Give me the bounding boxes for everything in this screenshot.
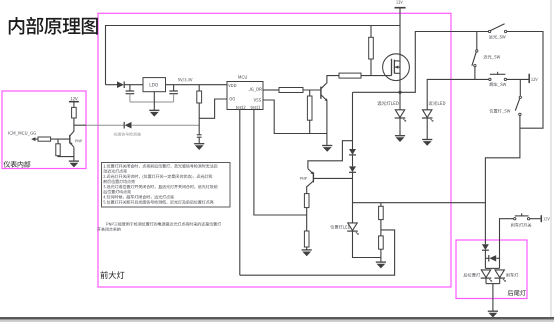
resistor R_inst2 (base series) <box>38 137 51 141</box>
capacitor C3 (sense filter) <box>197 135 202 137</box>
notes line 6 <box>103 190 107 194</box>
diode D1 (chain) <box>349 149 356 155</box>
label 位置灯_SW <box>489 109 493 113</box>
transistor Q1 collector <box>321 76 339 89</box>
wire drain node to high-beam switch rail <box>400 32 488 93</box>
wire brake switch to rear rail <box>500 219 514 269</box>
capacitor C1 input <box>126 85 135 102</box>
wire R7 to ground <box>306 247 308 250</box>
wire between D1 D2 <box>352 155 354 166</box>
wire R6 to R7 node <box>306 208 308 231</box>
instrument cluster boundary box (pink) <box>2 91 86 169</box>
ground (high beam LED) <box>395 136 405 142</box>
wire position LED bottom link <box>353 231 381 257</box>
wire LED to ground <box>399 118 401 135</box>
wire D3 to rear LED rail <box>484 250 486 268</box>
capacitor C2 output <box>169 85 178 102</box>
wire D2 to position LED node <box>352 173 354 223</box>
resistor R_inst3 (base-emitter shunt) <box>56 144 60 156</box>
transistor Q2 P-MOSFET body circle <box>383 54 410 81</box>
diode D_in (series, points right) <box>117 81 124 88</box>
wire 12V to resistor R_inst1 <box>73 102 75 108</box>
label MCU <box>238 75 241 78</box>
power 12V bar (overtake) <box>528 74 530 83</box>
wire R9 to ground <box>380 249 382 262</box>
wire S4 output down to rear feed <box>485 116 520 245</box>
Q3 base lead <box>314 177 353 179</box>
wire rail to low beam switch <box>476 32 478 50</box>
Q2 gate bar <box>391 59 393 76</box>
resistor R5 (gate pull-up) <box>369 37 374 59</box>
resistor R6 (Q3 collector upper) <box>304 194 309 208</box>
wire low beam LED feed <box>427 79 488 109</box>
wire GG net MCU to sense node <box>199 99 227 118</box>
wire 12V node to position switch <box>519 79 521 96</box>
regulator U_LDO box <box>143 78 166 92</box>
wire Q1 emitter to ground <box>326 101 328 146</box>
pin label test1 <box>251 106 252 109</box>
wire PNP emitter bypass <box>308 141 353 169</box>
wire test1 tap <box>254 110 307 216</box>
wire light sensor line (gray) diode to divider node <box>132 124 199 126</box>
transistor Q_inst PNP base bar <box>69 135 71 144</box>
pin label test2 <box>236 106 237 109</box>
switch S4 位置灯_SW <box>515 96 521 115</box>
Q2 channel bar <box>393 60 395 74</box>
wire shunt resistor top to base line <box>57 139 59 144</box>
wire diode chain top <box>352 92 354 149</box>
notes line 4 <box>103 180 107 184</box>
resistor R7 (Q3 collector lower) <box>304 231 309 247</box>
label 位置灯LED <box>330 225 334 229</box>
label 前大灯 <box>100 271 107 279</box>
label ICM_MCU_GG <box>7 131 9 134</box>
label 近光_SW <box>483 55 487 59</box>
power 12V bar (instrument) <box>69 101 79 103</box>
Q3 emitter diagonal with arrow <box>308 169 314 175</box>
pin label VSS <box>254 98 256 101</box>
ground (LDO) <box>149 110 159 116</box>
ground (low beam LED) <box>422 140 432 146</box>
resistor R3 (base pulldown) <box>307 96 312 120</box>
wire divider top stub <box>380 203 382 207</box>
ground (Q1 emitter) <box>322 146 332 152</box>
transistor Q3 PNP base bar <box>312 172 314 182</box>
label 12V (instrument) <box>71 97 73 100</box>
paragraph line 1 <box>106 223 108 226</box>
wire R5 bottom to gate line <box>370 59 372 76</box>
wire S1 to right rail <box>507 32 543 129</box>
signal arrow ICM_MCU_GG <box>31 137 35 141</box>
wire base line <box>51 138 70 140</box>
wire diode to LDO <box>124 84 143 86</box>
notes line 5 <box>103 185 105 188</box>
page right edge <box>551 0 552 317</box>
diode D3 (rear feed) <box>482 244 489 250</box>
node drain junction dot <box>398 91 401 94</box>
wire LDO output 5V rail to MCU VDD <box>166 84 228 86</box>
label 后尾灯 <box>508 290 514 296</box>
LED D_low (近光LED) <box>422 110 434 122</box>
wire position node to rear light feed <box>353 202 486 204</box>
wire rear rail to ground <box>492 284 494 312</box>
pin label VDD <box>228 84 230 87</box>
notes line 8 <box>103 201 105 204</box>
wire D4 right <box>496 257 499 259</box>
notes line 1 <box>104 165 106 168</box>
label 远光_SW <box>489 35 493 39</box>
title 内部原理图 <box>9 17 24 35</box>
notes box <box>102 163 231 208</box>
wire brake switch to 12V <box>530 218 541 220</box>
resistor R4 (collector) <box>339 73 361 78</box>
label PNP (instrument) <box>75 140 77 143</box>
wire LDO ground rail (gray) <box>130 101 174 103</box>
Q2 source stub <box>394 60 400 62</box>
power 12V bar (top) <box>395 7 406 9</box>
resistor R_inst1 (12V pull-up) <box>72 107 77 118</box>
label 12V (overtake) <box>531 78 533 81</box>
wire D4 left <box>485 257 488 259</box>
Q2 drain stub <box>394 72 400 74</box>
page bottom edge <box>0 317 554 319</box>
notes line 2 <box>103 169 107 173</box>
diode D_sense (points left) <box>124 122 131 129</box>
wire emitter to ground <box>73 157 75 162</box>
wire top supply rail <box>106 26 401 85</box>
label 近光LED <box>429 101 433 105</box>
ground (divider) <box>376 262 386 268</box>
label PNP (Q3) <box>300 177 302 180</box>
label 超车_SW <box>490 82 494 86</box>
wire base resistor to output arrow <box>35 138 38 140</box>
LED D_high (远光灯LED) <box>395 110 407 122</box>
label 刹车灯开关 <box>511 223 515 227</box>
wire rail to R1 <box>198 85 200 91</box>
LED D_pos (位置灯LED) <box>347 223 359 235</box>
wire resistor to PNP collector node <box>73 118 75 125</box>
label 12V (brake) <box>543 217 545 220</box>
wire R3 top stub <box>309 90 311 96</box>
wire R1 to sense node <box>198 103 200 135</box>
ground (rear) <box>488 311 498 317</box>
node instrument collector / signal out <box>74 124 86 126</box>
power 12V bar (brake) <box>540 215 542 222</box>
pin label JG_DR <box>249 88 251 91</box>
resistor R8 (divider upper) <box>379 206 384 219</box>
notes line 7 <box>103 196 105 199</box>
wire C3 to ground <box>198 137 200 144</box>
wire PNP_inst collector <box>70 125 74 135</box>
ground (instrument) <box>69 161 79 167</box>
front headlight boundary box (pink) <box>98 13 451 287</box>
label 刹车灯 <box>506 273 510 277</box>
label 12V (top) <box>396 1 398 4</box>
resistor R1 (light divider upper) <box>197 91 202 103</box>
transistor Q_inst emitter with arrow <box>70 143 74 147</box>
wire emitter down <box>58 147 74 156</box>
wire R8 to R9 <box>380 220 382 236</box>
ground (Q3 chain) <box>302 250 312 256</box>
label 5V/3.3V <box>178 78 180 81</box>
paragraph line 2 <box>97 228 101 231</box>
wire S3 to 12V <box>507 78 529 80</box>
transistor Q1 NPN base bar <box>320 87 322 99</box>
label LDO <box>150 83 152 86</box>
brake switch S5 刹车灯开关 pushbutton <box>514 213 530 220</box>
wire test2 drop <box>239 110 241 276</box>
pin label GG <box>230 97 232 100</box>
switch S1 远光_SW <box>488 24 506 33</box>
wire R5 top to rail <box>370 26 372 38</box>
resistor R2 (base series) <box>279 88 303 93</box>
wire VSS rail <box>263 100 327 134</box>
LED D_brake (刹车灯) <box>494 270 506 282</box>
wire rear LED bottom rail <box>485 278 487 283</box>
wire R3 bottom to VSS rail <box>309 120 311 133</box>
label 光感信号检测端 <box>114 132 118 136</box>
diode D4 (brake to position bridge, points left) <box>489 255 496 261</box>
Q2 bulk stub with arrow <box>394 66 400 68</box>
wire JG_DR pin to R2 <box>263 89 279 91</box>
wire 12V node to diode <box>106 84 118 86</box>
switch S3 超车_SW pushbutton <box>489 72 507 81</box>
label 仪表内部 <box>4 161 11 167</box>
wire divider midpoint to test2 <box>240 230 395 275</box>
wire R4 to gate node <box>361 75 392 77</box>
wire light sensor line (gray) from instrument box to diode <box>86 124 124 126</box>
wire drain node to diode chain <box>353 91 401 93</box>
diode D2 (chain) <box>349 166 356 172</box>
wire LDO ground pin <box>153 92 155 111</box>
Q3 collector diagonal <box>307 181 314 194</box>
wire R2 to NPN base <box>303 89 321 91</box>
switch S2 近光_SW <box>472 50 478 67</box>
LED D_rpos (后位置灯) <box>481 270 493 282</box>
transistor Q1 emitter with arrow <box>321 95 327 101</box>
MCU U1 box <box>227 82 263 110</box>
ground (sense) <box>194 144 204 150</box>
wire S2 to low beam line <box>474 67 476 80</box>
label 远光灯LED <box>377 101 381 105</box>
wire rear LED top rail <box>485 267 499 269</box>
label 后位置灯 <box>464 273 468 277</box>
wire low LED to ground <box>426 118 428 139</box>
resistor R9 (divider lower) <box>379 236 384 249</box>
wire 12V feed through MOSFET down to LED <box>399 8 401 110</box>
rear tail light boundary box (pink) <box>456 240 527 299</box>
notes line 3 <box>103 175 105 178</box>
